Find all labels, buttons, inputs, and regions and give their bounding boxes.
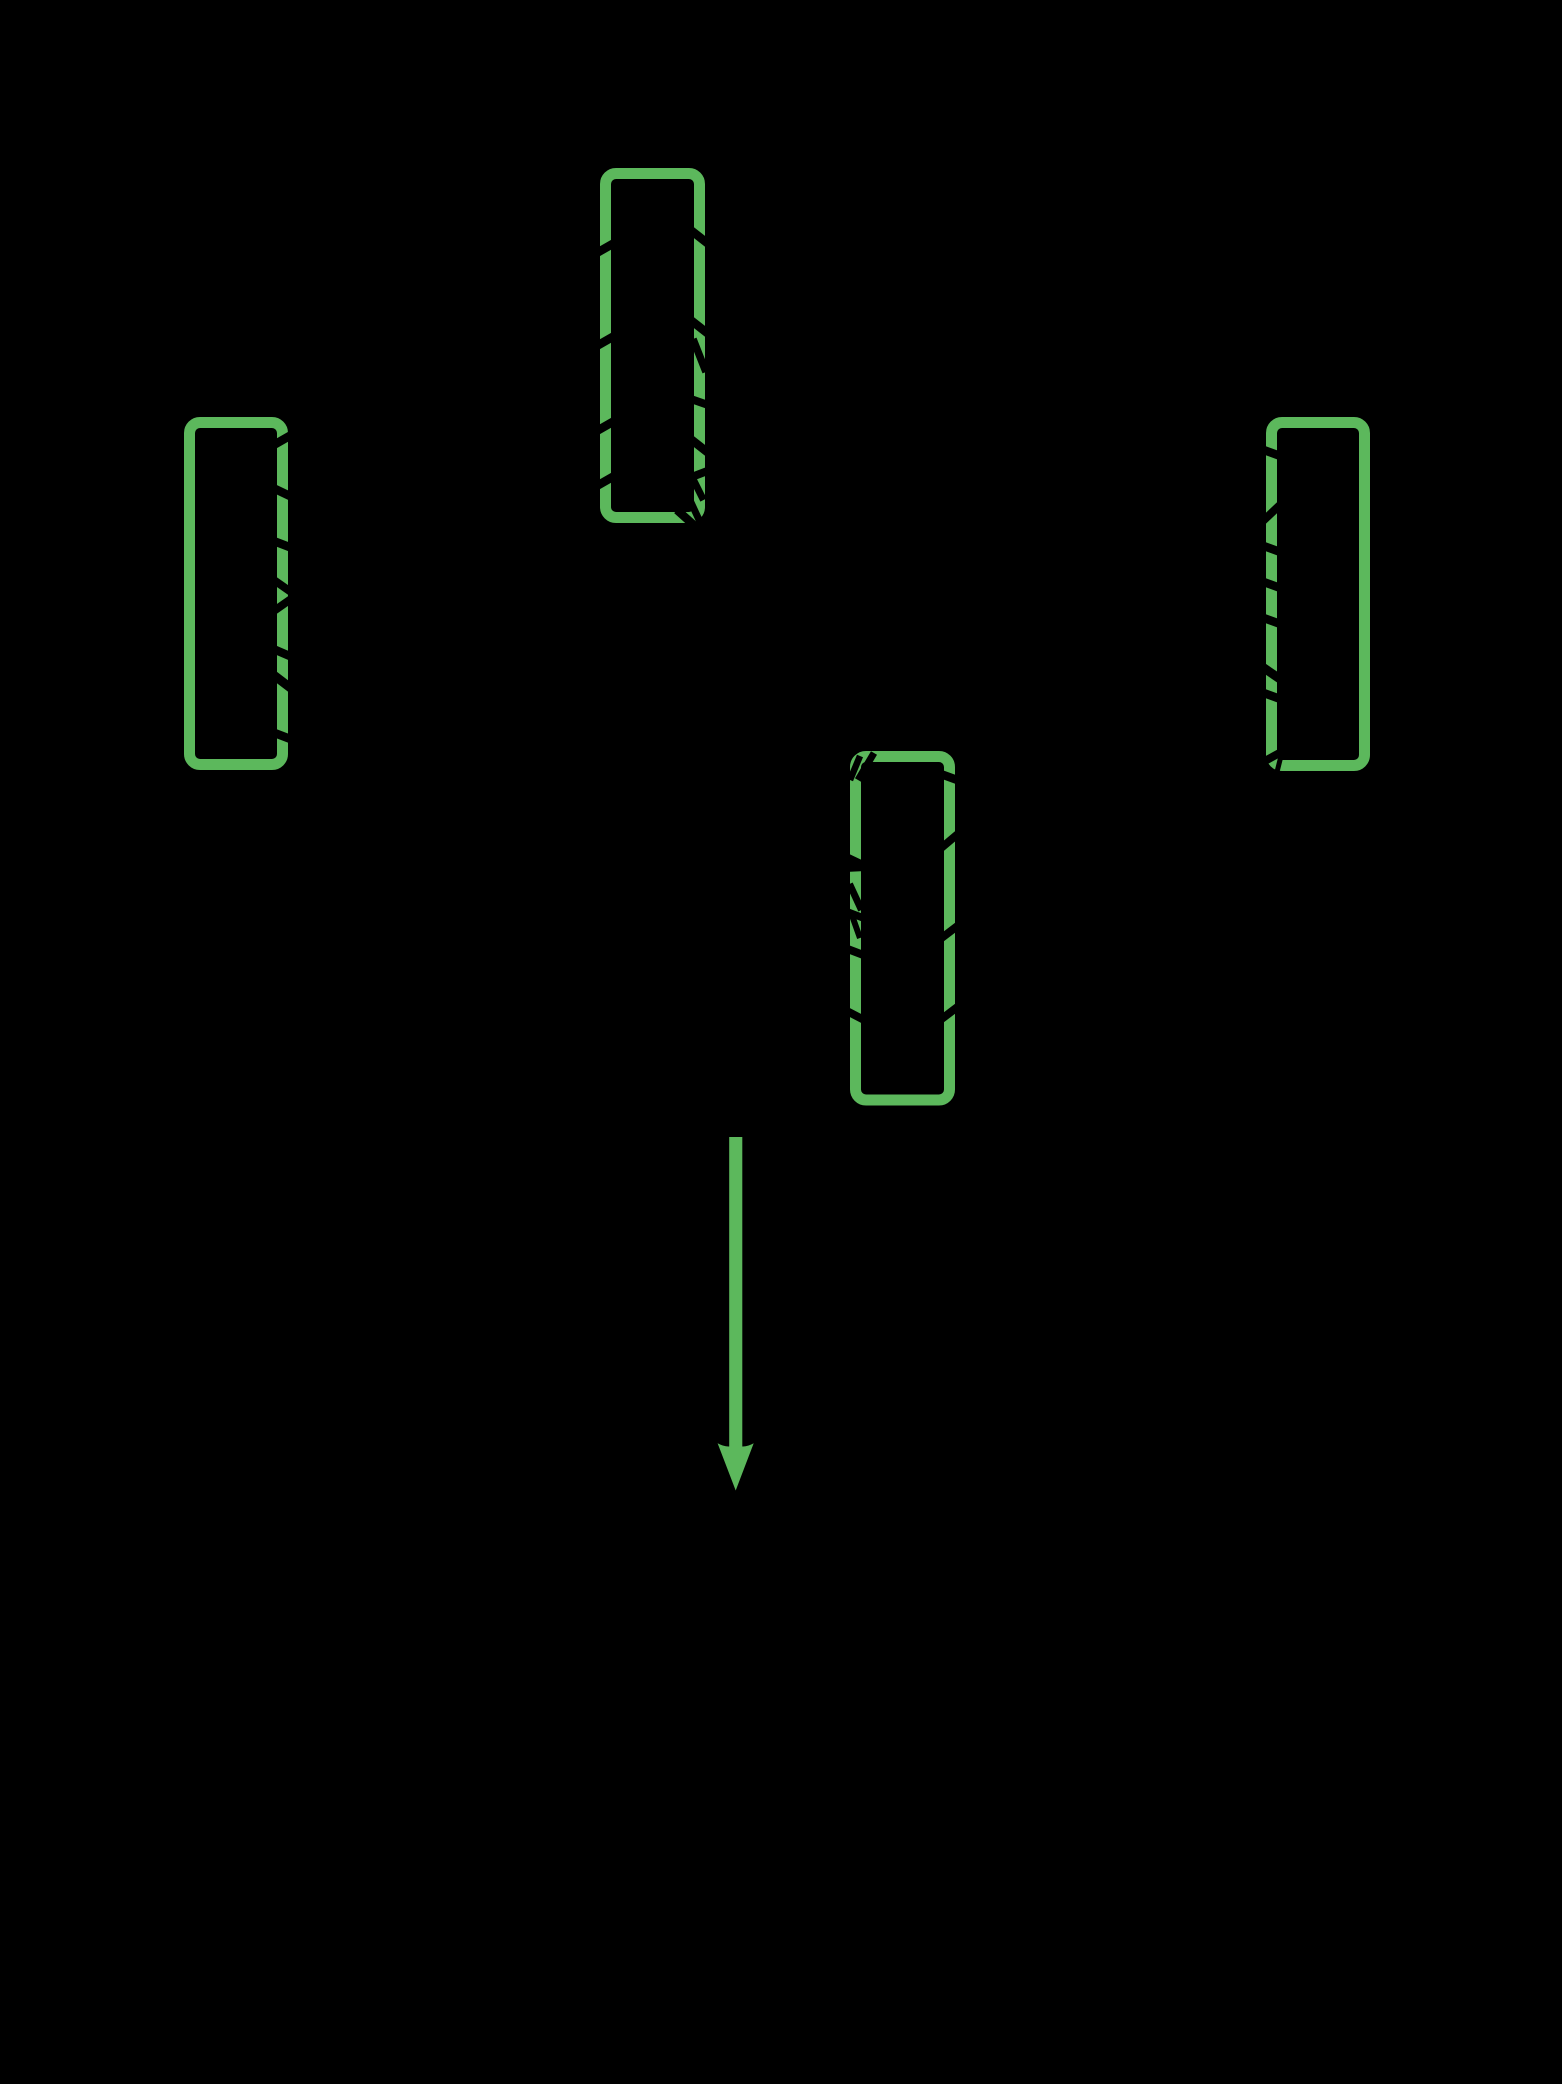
chromosome D (middle-bottom green outline) xyxy=(856,757,950,1101)
green down arrow xyxy=(718,1137,754,1491)
hatch marks on chromosome B xyxy=(271,434,293,740)
hatch marks on chromosome A xyxy=(595,228,711,527)
chromosome C (right green outline) xyxy=(1272,423,1365,766)
hatch marks on chromosome D xyxy=(845,753,960,1021)
hatch marks on chromosome C xyxy=(1261,449,1285,772)
chromosome B (left green outline) xyxy=(190,423,283,765)
chromosome A (top-middle green outline) xyxy=(606,174,700,518)
